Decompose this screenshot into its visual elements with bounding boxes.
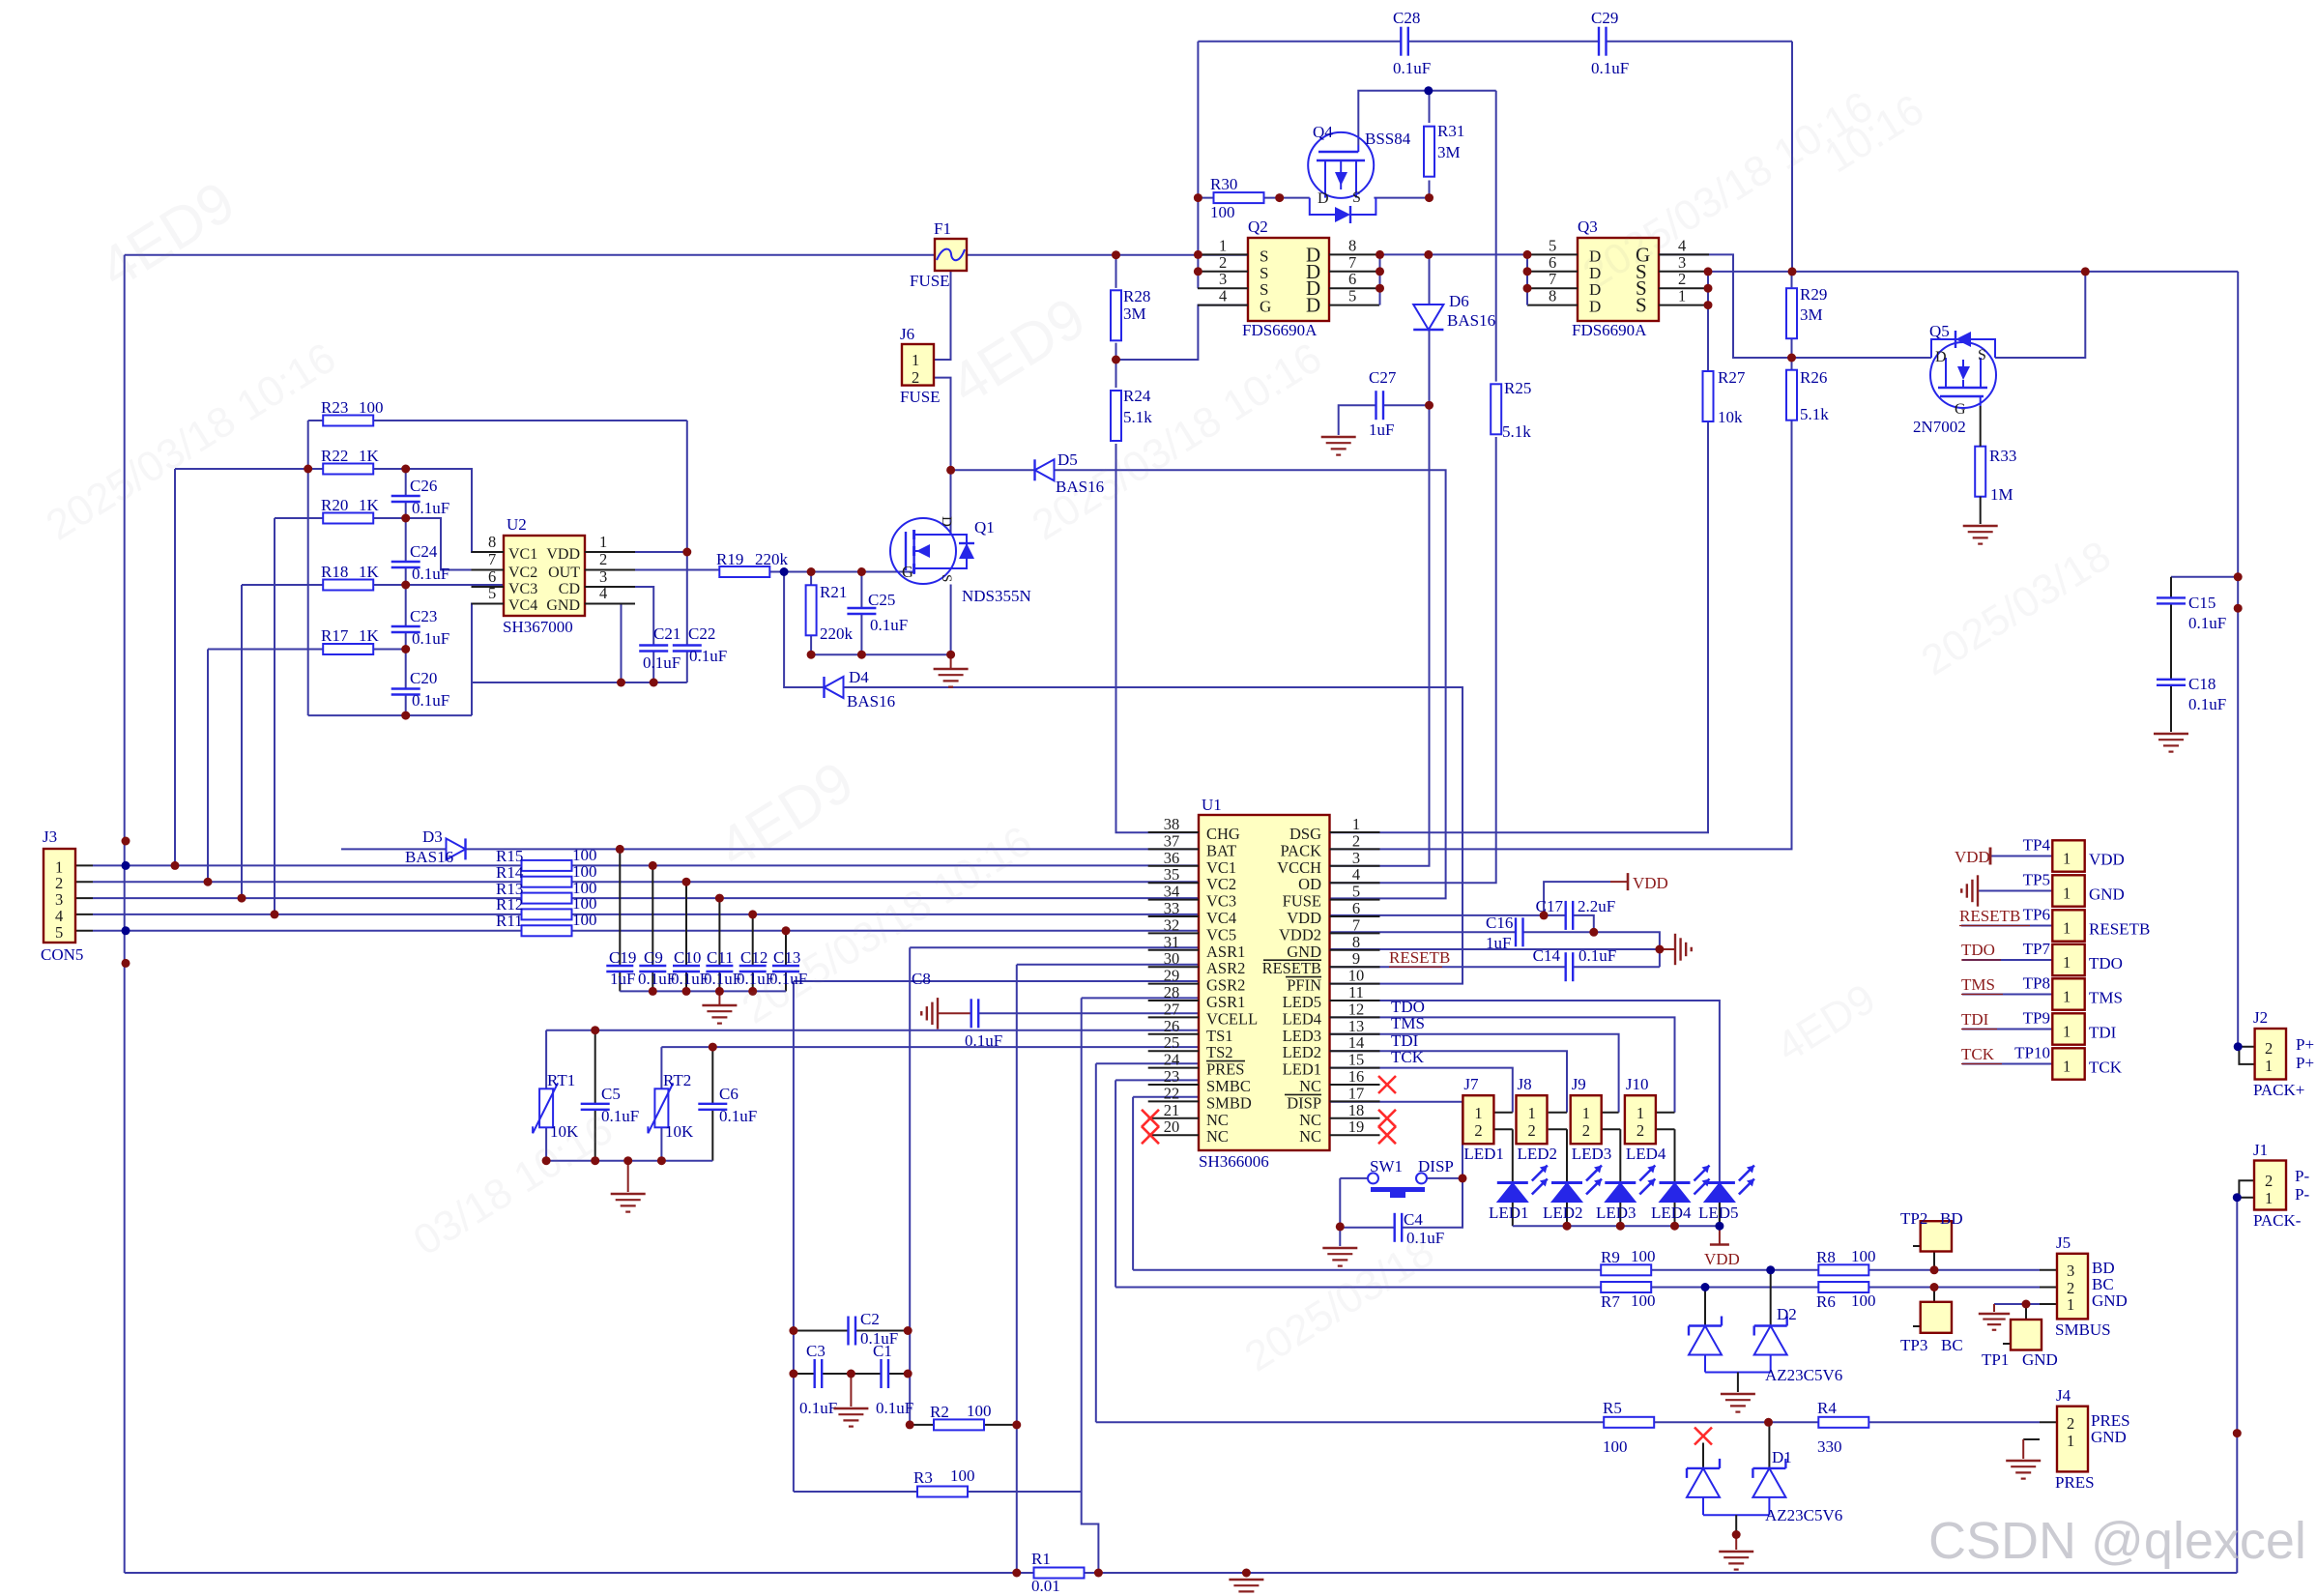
svg-text:13: 13 [1348, 1017, 1365, 1035]
svg-text:S: S [1260, 247, 1268, 265]
svg-text:30: 30 [1164, 949, 1180, 968]
wire D2 right anode [1770, 1355, 1772, 1373]
svg-text:24: 24 [1164, 1051, 1180, 1069]
svg-text:VC3: VC3 [1206, 892, 1236, 911]
svg-text:2: 2 [1636, 1121, 1644, 1140]
resistor R7 [1601, 1282, 1656, 1311]
svg-text:R23: R23 [321, 398, 348, 417]
wire VC1 row [93, 864, 522, 866]
wire J7 pin1 stub [1494, 1112, 1513, 1114]
wire J pin2 drop [1619, 1129, 1621, 1182]
wire R3 row left [794, 1491, 917, 1493]
thermistor RT1 [533, 1071, 579, 1141]
wire F1 bottom to J6 pin1 [934, 271, 951, 360]
wire VC2 row [93, 881, 522, 883]
svg-text:PACK-: PACK- [2253, 1211, 2302, 1230]
capacitor C25 [847, 591, 908, 634]
wire D2 bus [1705, 1372, 1771, 1374]
svg-text:LED1: LED1 [1489, 1204, 1529, 1222]
svg-text:2: 2 [2265, 1172, 2273, 1190]
svg-text:C27: C27 [1369, 368, 1397, 387]
ground R33 [1963, 526, 1998, 544]
wire U1 SMBC stub wire [1115, 1079, 1199, 1081]
svg-text:FDS6690A: FDS6690A [1572, 321, 1647, 339]
wire VC5 row [93, 930, 522, 932]
svg-text:9: 9 [1352, 949, 1360, 968]
junction [1425, 401, 1434, 410]
capacitor C29 [1591, 9, 1629, 77]
wire R28 top stub [1115, 255, 1117, 288]
svg-text:SMBC: SMBC [1206, 1077, 1251, 1095]
ground D2 [1721, 1394, 1755, 1412]
resistor R22 [321, 447, 380, 475]
svg-text:SH366006: SH366006 [1199, 1152, 1269, 1171]
op-amp U1 SH366006 [1199, 815, 1330, 1150]
capacitor C15 [2157, 594, 2226, 632]
wire Q2 right col [1379, 254, 1381, 305]
junction navy [1701, 1283, 1710, 1291]
wire C22 bottom stub [686, 652, 688, 682]
wire Q3 gate stub [1660, 254, 1932, 358]
junction [2234, 604, 2243, 613]
wire R21 C25 bottom bus [811, 653, 951, 655]
junction [1194, 250, 1202, 259]
wire RESETB row9 [1330, 966, 1566, 968]
svg-text:1: 1 [2063, 885, 2071, 903]
svg-text:2: 2 [912, 368, 919, 387]
ground TP5 [1961, 875, 1978, 906]
wire R21 top stub [810, 572, 812, 586]
wire R19 to Q1 gate [769, 571, 914, 573]
svg-text:Q5: Q5 [1929, 322, 1950, 340]
svg-text:D6: D6 [1449, 292, 1469, 310]
testpoint TP9 [2052, 1013, 2084, 1044]
capacitor C8 [912, 970, 1002, 1050]
wire D1 right anode [1768, 1497, 1770, 1515]
svg-text:C21: C21 [653, 624, 681, 643]
svg-text:5: 5 [1352, 883, 1360, 901]
svg-text:LED3: LED3 [1596, 1204, 1636, 1222]
junction navy [780, 567, 789, 576]
wire R22 col down [307, 469, 309, 715]
wire C28 to C29 [1408, 41, 1599, 43]
wire J4 pin2 stub [2040, 1421, 2057, 1423]
svg-text:1: 1 [2067, 1295, 2074, 1314]
svg-text:CD: CD [559, 581, 580, 597]
junction [748, 910, 757, 918]
resistor R18 [321, 563, 380, 591]
svg-text:37: 37 [1164, 831, 1180, 850]
svg-text:0.1uF: 0.1uF [965, 1031, 1002, 1050]
svg-text:0.1uF: 0.1uF [412, 499, 449, 517]
op-amp U2 SH367000 [504, 536, 585, 616]
testpoint TP5 [2052, 875, 2084, 906]
svg-text:P+: P+ [2296, 1035, 2314, 1054]
svg-text:2: 2 [1678, 270, 1686, 288]
resistor R28 [1111, 287, 1150, 340]
wire R22 right to C26 [373, 469, 504, 552]
wire BD row mid [1652, 1269, 2040, 1271]
svg-text:J8: J8 [1518, 1075, 1532, 1093]
svg-text:CON5: CON5 [41, 945, 83, 964]
diode D6 BAS16 [1413, 292, 1495, 330]
wire D4 to U1 PFIN [844, 687, 1463, 984]
svg-text:3: 3 [1352, 849, 1360, 867]
svg-text:TP5: TP5 [2023, 871, 2050, 889]
svg-text:C14: C14 [1533, 946, 1561, 965]
wire TP8 TMS [1962, 994, 2052, 996]
resistor R25 [1491, 379, 1531, 441]
junction [906, 1420, 914, 1429]
svg-text:LED4: LED4 [1626, 1145, 1666, 1163]
wire C5 bottom [594, 1110, 596, 1161]
svg-text:TCK: TCK [1961, 1045, 1995, 1063]
svg-text:VCCH: VCCH [1277, 858, 1321, 877]
ground J4 [2006, 1461, 2041, 1479]
svg-text:R18: R18 [321, 563, 348, 581]
svg-text:1: 1 [1352, 815, 1360, 833]
wire R3 jog to R1 [1082, 1492, 1099, 1573]
svg-text:38: 38 [1164, 815, 1180, 833]
wire PRES col [1095, 1063, 1097, 1422]
svg-text:NC: NC [1206, 1111, 1229, 1129]
wire J5 gnd stem [1993, 1304, 1995, 1312]
svg-text:3: 3 [1219, 270, 1227, 288]
wire C27 right [1383, 404, 1430, 406]
svg-text:F1: F1 [934, 219, 951, 238]
junction [1012, 1569, 1021, 1578]
svg-text:TP6: TP6 [2023, 906, 2050, 924]
transistor Q5 2N7002 [1913, 322, 1996, 436]
wire LED anode bus [1513, 1225, 1720, 1227]
svg-text:J10: J10 [1626, 1075, 1649, 1093]
wire VC1 row right [572, 864, 1200, 866]
svg-text:12: 12 [1348, 1000, 1365, 1018]
testpoint TP3 [1921, 1302, 1952, 1333]
svg-text:C28: C28 [1393, 9, 1420, 27]
wire D2 gnd stem [1737, 1373, 1739, 1393]
junction [1704, 301, 1713, 309]
resistor R24 [1111, 387, 1152, 441]
svg-text:1: 1 [1636, 1104, 1644, 1122]
wire C20 bottom bus [308, 714, 472, 716]
svg-text:NC: NC [1299, 1077, 1321, 1095]
svg-text:1: 1 [2265, 1057, 2273, 1075]
svg-text:TP9: TP9 [2023, 1009, 2050, 1028]
wire D6 cathode to C27 node [1429, 330, 1431, 405]
capacitor C12 [737, 948, 774, 988]
wire R26 bottom to U1 PACK [1330, 421, 1792, 850]
wire R25 bottom to U1 OD [1330, 437, 1496, 883]
testpoint TP7 [2052, 944, 2084, 975]
connector J5 SMBUS [2057, 1254, 2088, 1320]
svg-text:BAS16: BAS16 [1447, 311, 1495, 330]
wire VDD bar TP4 [1989, 848, 1992, 865]
junction [789, 1326, 797, 1335]
wire cap gnd stem [718, 991, 720, 1004]
wire C18 bottom [2170, 685, 2172, 732]
wire cap drop [652, 865, 653, 966]
svg-text:TS2: TS2 [1206, 1043, 1233, 1061]
svg-text:D3: D3 [422, 827, 443, 846]
wire P+ right column [2237, 272, 2239, 1047]
no-connect X pin21 [1142, 1110, 1159, 1127]
wire Q3 S pins column [1707, 272, 1709, 371]
zener D1 right [1752, 1459, 1785, 1497]
wire left border P- net [124, 255, 126, 1573]
svg-text:2: 2 [1219, 253, 1227, 272]
wire Q3 right join [1708, 271, 1710, 273]
svg-text:TS1: TS1 [1206, 1027, 1233, 1045]
junction [1704, 267, 1713, 276]
svg-text:5.1k: 5.1k [1502, 422, 1531, 441]
svg-text:2N7002: 2N7002 [1913, 418, 1966, 436]
svg-text:2: 2 [1352, 831, 1360, 850]
wire Q2 source column [1197, 42, 1199, 289]
svg-text:J5: J5 [2056, 1233, 2071, 1252]
wire J8 pin1 stub [1549, 1112, 1567, 1114]
svg-text:C20: C20 [410, 669, 437, 687]
wire C15 top link [2171, 576, 2238, 578]
wire TS2 row [661, 1046, 1199, 1048]
wire C16 right run [1523, 932, 1660, 967]
svg-text:D5: D5 [1057, 450, 1078, 469]
wire right border up to J1 [2236, 1198, 2238, 1573]
wire C20 stub top [405, 650, 407, 689]
svg-text:31: 31 [1164, 933, 1180, 951]
junction [204, 878, 213, 886]
svg-text:LED1: LED1 [1463, 1145, 1504, 1163]
wire TP10 TCK [1962, 1063, 2052, 1065]
wire U2 GND pin stub [585, 604, 622, 683]
svg-text:ASR2: ASR2 [1206, 959, 1245, 977]
wire J3 col1 [174, 469, 176, 865]
svg-text:R24: R24 [1123, 387, 1151, 405]
svg-text:3: 3 [2067, 1262, 2074, 1280]
wire Q3 pin5 in [1430, 253, 1528, 255]
junction [857, 567, 866, 576]
junction [709, 1043, 717, 1052]
wire RT2 bottom [660, 1127, 662, 1161]
wire R21 bottom stub [810, 635, 812, 654]
svg-text:C15: C15 [2188, 594, 2216, 612]
wire TP2 drop [1933, 1251, 1935, 1270]
junction [1112, 250, 1120, 259]
junction navy [2233, 1193, 2242, 1202]
wire VC4 row [93, 914, 522, 915]
svg-text:BC: BC [1941, 1336, 1963, 1354]
svg-text:R5: R5 [1603, 1399, 1622, 1417]
svg-text:TDI: TDI [2089, 1024, 2117, 1042]
wire TDI row14 [1330, 1051, 1568, 1113]
svg-text:C26: C26 [410, 477, 437, 495]
svg-text:BAS16: BAS16 [405, 848, 453, 866]
svg-text:10K: 10K [665, 1122, 694, 1141]
wire TP7 TDO [1962, 959, 2052, 961]
junction [1336, 1222, 1345, 1231]
wire J5 gnd row [1994, 1303, 2040, 1305]
wire D1 left anode [1702, 1497, 1704, 1515]
resistor R14 [496, 862, 597, 887]
resistor R29 [1786, 285, 1827, 338]
svg-text:CSDN @qlexcel: CSDN @qlexcel [1928, 1512, 2306, 1570]
LED LED1 [1489, 1166, 1548, 1223]
capacitor C10 [671, 948, 709, 988]
svg-text:7: 7 [1348, 253, 1356, 272]
wire C29 to right drop [1607, 41, 1793, 43]
junction [682, 987, 691, 996]
wire R31 bottom stub [1429, 181, 1431, 198]
ground D1 [1719, 1552, 1753, 1570]
svg-text:5: 5 [1348, 287, 1356, 305]
wire VC3 row right [572, 897, 1200, 899]
junction [1764, 1418, 1773, 1427]
svg-text:LED2: LED2 [1518, 1145, 1558, 1163]
wire LED anode drop [1566, 1203, 1568, 1227]
svg-text:11: 11 [1348, 983, 1364, 1001]
svg-text:P-: P- [2295, 1167, 2309, 1185]
wire R24 bottom to U1 CHG [1116, 444, 1200, 832]
svg-text:0.1uF: 0.1uF [876, 1399, 913, 1417]
svg-text:PRES: PRES [2055, 1473, 2095, 1492]
svg-text:27: 27 [1164, 1000, 1180, 1018]
wire bottom border to R1 [125, 1572, 1034, 1574]
LED LED3 [1596, 1166, 1655, 1223]
wire R3 row right [968, 1491, 1082, 1493]
junction [401, 581, 410, 590]
wire VDD2 row7 [1330, 931, 1517, 933]
svg-text:RT1: RT1 [547, 1071, 575, 1089]
wire BAT row right [465, 848, 1199, 850]
resistor R11 [496, 911, 597, 936]
wire Q5 gate to R33 [1980, 406, 1982, 447]
wire DISP row17 [1330, 1102, 1463, 1228]
resistor R13 [496, 879, 597, 904]
svg-text:TMS: TMS [1961, 975, 1995, 994]
junction [617, 679, 625, 687]
wire GSR1 row [1082, 997, 1199, 999]
wire F1 to Q2 pin1 [967, 254, 1248, 256]
wire RT1 top [545, 1030, 547, 1089]
svg-text:SMBUS: SMBUS [2055, 1320, 2111, 1339]
svg-text:C16: C16 [1486, 914, 1513, 932]
junction [748, 987, 757, 996]
wire PRES row mid [1654, 1421, 1818, 1423]
svg-text:LED3: LED3 [1283, 1027, 1321, 1045]
connector J3 CON5 [43, 849, 75, 943]
wire J2 pin1 bracket [2239, 1047, 2254, 1064]
wire TP5 GND [1978, 890, 2052, 892]
Q1 body diode [951, 535, 975, 568]
svg-text:TP10: TP10 [2014, 1044, 2050, 1062]
junction [782, 926, 791, 935]
capacitor C24 [391, 542, 450, 583]
wire TDO row12 [1330, 1017, 1675, 1112]
connector J6 [902, 344, 934, 386]
junction [682, 878, 691, 886]
wire top C28 net left [1198, 41, 1401, 43]
wire J3 col4 [274, 518, 275, 914]
junction navy [1424, 86, 1433, 95]
svg-text:100: 100 [1631, 1247, 1656, 1265]
svg-text:1: 1 [599, 533, 607, 551]
Q4 body diode [1310, 198, 1376, 223]
wire R23 column [686, 421, 688, 646]
wire R23 row [308, 420, 324, 421]
junction [1523, 267, 1532, 276]
svg-text:D: D [939, 516, 954, 527]
junction [171, 861, 180, 870]
wire R30 right to Q4 drain [1264, 197, 1310, 199]
svg-text:1K: 1K [359, 626, 380, 645]
connector J4 PRES [2057, 1407, 2088, 1472]
svg-text:VDD: VDD [1955, 848, 1990, 866]
junction [1670, 1222, 1679, 1231]
resistor R30 [1210, 175, 1264, 221]
svg-text:LED2: LED2 [1283, 1043, 1321, 1061]
svg-text:1uF: 1uF [1486, 934, 1511, 952]
fuse F1 [935, 239, 967, 271]
wire U2 gnd bus [472, 682, 687, 683]
wire C14 right [1573, 966, 1660, 968]
wire VCELL row [978, 1012, 1200, 1014]
svg-text:0.1uF: 0.1uF [799, 1399, 837, 1417]
svg-text:D4: D4 [849, 668, 869, 686]
svg-text:D: D [1935, 349, 1947, 365]
wire J5 pin3 stub [2040, 1269, 2057, 1271]
junction navy [2234, 1042, 2243, 1051]
connector J9 [1571, 1095, 1602, 1144]
diode D4 BAS16 [825, 668, 896, 711]
svg-text:1uF: 1uF [1369, 421, 1394, 439]
svg-text:100: 100 [1210, 203, 1235, 221]
resistor R23 [321, 398, 384, 426]
wire LED anode drop [1619, 1203, 1621, 1227]
svg-text:G: G [1260, 298, 1271, 316]
wire R23 right [373, 420, 687, 421]
svg-text:S: S [1352, 189, 1361, 206]
wire Q2 pin4 gate path [1116, 305, 1249, 360]
power VDD at TP4 [1955, 848, 1990, 867]
diode D5 BAS16 [1035, 450, 1105, 496]
wire LED anode drop [1719, 1203, 1721, 1227]
wire RT1 bottom [545, 1127, 547, 1161]
wire R25 column top [1495, 91, 1497, 382]
wire D1 gnd stem2 [1735, 1535, 1737, 1551]
wire Q3 left col [1526, 254, 1528, 305]
wire C23 to R17 row [405, 632, 407, 650]
svg-text:19: 19 [1348, 1117, 1365, 1136]
wire C24 stub top [405, 518, 407, 562]
wire cap drop [785, 931, 787, 966]
svg-text:R29: R29 [1800, 285, 1827, 304]
svg-text:R2: R2 [930, 1403, 949, 1421]
junction [1655, 945, 1664, 954]
svg-text:C23: C23 [410, 607, 437, 625]
svg-text:FUSE: FUSE [910, 272, 950, 290]
svg-text:0.1uF: 0.1uF [412, 691, 449, 710]
wire cap drop low [619, 972, 621, 991]
capacitor C18 [2157, 675, 2226, 713]
wire drop to R29 node [1791, 42, 1793, 272]
svg-text:1: 1 [1678, 287, 1686, 305]
svg-text:TMS: TMS [1391, 1014, 1425, 1032]
svg-text:R1: R1 [1031, 1550, 1051, 1568]
wire RT gnd stem [627, 1161, 629, 1192]
svg-text:0.1uF: 0.1uF [2188, 695, 2226, 713]
wire C17 right elbow [1573, 915, 1594, 932]
wire Q1 source down [950, 585, 952, 655]
